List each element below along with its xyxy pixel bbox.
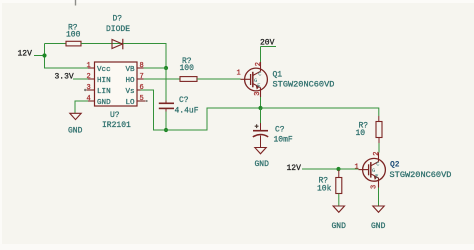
svg-text:STGW20NC60VD: STGW20NC60VD (390, 170, 452, 180)
ground below Q2 (371, 206, 386, 231)
svg-text:100: 100 (66, 31, 81, 40)
svg-text:7: 7 (140, 73, 144, 81)
pin 2 HIN (87, 73, 111, 85)
svg-text:Q1: Q1 (273, 71, 283, 80)
svg-text:HIN: HIN (97, 77, 111, 85)
svg-text:2: 2 (87, 73, 91, 81)
svg-text:2: 2 (255, 62, 263, 66)
ground below R4 (332, 206, 347, 231)
wire 12V to gate node (302, 168, 339, 170)
svg-text:C?: C? (275, 126, 285, 135)
junction 12V (42, 53, 46, 57)
svg-text:12V: 12V (18, 50, 33, 59)
svg-text:6: 6 (140, 84, 144, 92)
resistor R2 100 (gate Q1) (180, 57, 198, 81)
ground below C3 (255, 148, 270, 170)
svg-text:Vs: Vs (126, 88, 135, 96)
wire R2 to Q1 gate (197, 78, 241, 80)
wire pin4 to ground (75, 101, 88, 113)
ground below U? (68, 113, 83, 135)
svg-text:VB: VB (126, 66, 136, 74)
capacitor C3 10mF (polarized) (253, 108, 293, 147)
svg-text:4.4uF: 4.4uF (175, 107, 199, 116)
svg-text:10mF: 10mF (274, 136, 293, 145)
pin 8 VB (126, 62, 144, 74)
wire 12V label stub (34, 55, 45, 57)
wire 3.3V to pin2 HIN (73, 78, 88, 80)
wire pin8 VB to junction (144, 67, 167, 69)
svg-text:HO: HO (126, 77, 136, 85)
op-amp U? IR2101 body (95, 62, 138, 130)
junction VB node (164, 66, 168, 70)
svg-text:Vcc: Vcc (97, 66, 111, 74)
wire pin6 Vs down and across (141, 90, 261, 130)
svg-text:10k: 10k (317, 185, 332, 194)
wire 12V to pin1 Vcc (45, 67, 89, 69)
svg-text:GND: GND (97, 99, 111, 107)
svg-text:DIODE: DIODE (106, 25, 130, 34)
pin 4 GND (87, 95, 112, 107)
resistor R4 10k (317, 170, 342, 194)
svg-text:GND: GND (332, 222, 347, 231)
wire 20V to Q1 collector (260, 47, 262, 63)
capacitor C2 4.4uF (bootstrap) (159, 96, 199, 116)
svg-text:Q2: Q2 (390, 161, 400, 170)
wire Q2 emitter to ground (378, 188, 380, 206)
svg-text:IR2101: IR2101 (102, 121, 131, 130)
svg-text:1: 1 (355, 164, 359, 172)
wire phase rail to R3 (261, 108, 379, 116)
wire R1 to D1 (81, 43, 123, 45)
wire R4 to ground (338, 194, 340, 206)
wire C2 bottom to Vs rail (165, 112, 167, 131)
pin 6 Vs (126, 84, 144, 96)
svg-text:D?: D? (113, 15, 123, 24)
svg-text:C?: C? (179, 96, 189, 105)
pin 1 Vcc (87, 62, 111, 74)
svg-text:3: 3 (87, 84, 91, 92)
wire R3 to Q2 collector (378, 138, 380, 144)
wire gate node to Q2 (339, 168, 359, 170)
svg-text:GND: GND (371, 222, 386, 231)
svg-text:LIN: LIN (97, 88, 111, 96)
diode D? DIODE (106, 15, 130, 50)
svg-text:12V: 12V (287, 164, 302, 173)
svg-text:LO: LO (126, 99, 136, 107)
net label 20V (260, 39, 276, 48)
wire pin7 HO to R2 (144, 78, 181, 80)
junction gate node (336, 167, 340, 171)
svg-text:1: 1 (237, 70, 241, 78)
transistor Q1 STGW20NC60VD (237, 62, 335, 97)
svg-text:GND: GND (68, 127, 83, 136)
wire D1 to corner (123, 44, 166, 69)
svg-text:U?: U? (110, 111, 120, 120)
resistor R3 10 (356, 122, 383, 139)
svg-text:5: 5 (140, 95, 144, 103)
svg-text:8: 8 (140, 62, 144, 70)
svg-text:STGW20NC60VD: STGW20NC60VD (273, 80, 335, 90)
svg-text:100: 100 (180, 64, 195, 73)
svg-text:2: 2 (373, 152, 381, 156)
resistor R1 100 (66, 24, 81, 46)
wire vertical 12V bus (44, 44, 46, 69)
wire VB junction down to C2 (165, 68, 167, 101)
svg-text:3: 3 (254, 92, 262, 96)
svg-text:1: 1 (87, 62, 91, 70)
unfinished grey wire stub top (75, 0, 77, 6)
pin 7 HO (126, 73, 144, 85)
wire Q1 emitter to rail (260, 97, 262, 108)
svg-text:4: 4 (87, 95, 91, 103)
junction phase node (258, 106, 262, 110)
svg-text:GND: GND (255, 160, 270, 169)
transistor Q2 STGW20NC60VD (355, 152, 452, 189)
svg-text:10: 10 (356, 129, 366, 138)
svg-text:3: 3 (371, 185, 379, 189)
svg-text:3.3V: 3.3V (55, 73, 74, 82)
junction C2/Vs (164, 128, 168, 132)
pin 3 LIN (unconnected) (84, 84, 111, 96)
wire to R1 (45, 43, 67, 45)
pin 5 LO (unconnected) (126, 95, 148, 107)
